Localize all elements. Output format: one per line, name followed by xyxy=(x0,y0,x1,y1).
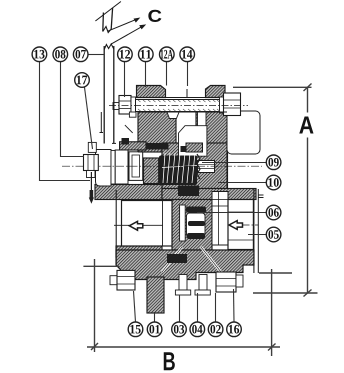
bottom flange band upper xyxy=(116,250,254,280)
label A xyxy=(299,116,313,133)
body flange band right xyxy=(162,189,256,200)
leader 15 xyxy=(134,291,136,322)
bonnet cap left block xyxy=(137,86,166,98)
leader 05 xyxy=(248,234,266,236)
stem bore lines xyxy=(100,112,117,143)
balloon 13 xyxy=(32,47,47,62)
leader 16 xyxy=(233,289,236,322)
leader 10 xyxy=(218,182,266,184)
balloon text 02 xyxy=(210,325,220,334)
leader 13 xyxy=(40,62,91,181)
plug slot white xyxy=(180,205,186,241)
balloons xyxy=(32,47,281,337)
balloon 12A xyxy=(160,47,175,62)
bottom studs xyxy=(110,270,243,295)
leader lines xyxy=(40,55,267,323)
balloon text 01 xyxy=(149,325,159,334)
leader 09 xyxy=(202,162,266,164)
balloon text 03 xyxy=(174,325,184,334)
balloon 09 xyxy=(266,155,281,170)
balloon 17 xyxy=(75,73,90,88)
spring jagged edges xyxy=(159,154,200,180)
flange lip dashes xyxy=(259,195,264,198)
bolt right hex nut xyxy=(224,93,241,116)
balloon text 12 xyxy=(120,50,130,59)
leader 17 xyxy=(85,87,93,149)
balloon text 17 xyxy=(77,76,87,85)
bonnet V-notch white xyxy=(167,111,180,119)
spring seat frame xyxy=(129,152,143,181)
dark filled parts xyxy=(122,138,207,263)
left port lower band xyxy=(116,246,162,257)
balloon text 05 xyxy=(268,230,278,239)
bonnet outline xyxy=(138,112,227,152)
balloon 07 xyxy=(73,47,88,62)
balloon 01 xyxy=(147,322,162,337)
bolt tip xyxy=(113,103,119,110)
plug dark top xyxy=(186,207,206,213)
flow arrow left xyxy=(129,221,143,230)
flow arrow right xyxy=(229,221,243,230)
adjusting nut in pocket xyxy=(186,143,203,152)
balloon text 10 xyxy=(268,178,278,187)
balloon 03 xyxy=(172,322,187,337)
body flange band left xyxy=(95,185,162,200)
right body edge lines xyxy=(253,188,255,273)
spring texture xyxy=(162,153,197,183)
label B xyxy=(164,352,175,370)
leader 08 xyxy=(61,62,85,157)
leader 03 xyxy=(179,295,181,322)
leader 11 xyxy=(145,62,147,87)
lower dark band xyxy=(167,254,187,263)
balloon text 08 xyxy=(55,50,65,59)
left bolt tip xyxy=(110,276,117,285)
bonnet white pocket xyxy=(179,126,207,157)
leader 02 xyxy=(215,293,217,322)
hatched body group xyxy=(95,86,256,314)
cage lines xyxy=(212,192,228,246)
bolt washer right xyxy=(220,97,224,113)
bonnet left mass xyxy=(138,112,176,152)
stem flag break xyxy=(95,2,121,33)
balloon 15 xyxy=(128,322,143,337)
flange seam left xyxy=(162,247,182,272)
bonnet white channel xyxy=(198,112,207,132)
leader 04 xyxy=(197,293,199,322)
leader 12A xyxy=(166,62,168,86)
stem xyxy=(104,44,114,144)
left port face line xyxy=(115,190,117,265)
bonnet right mass xyxy=(196,112,228,189)
seat dark band xyxy=(178,186,199,197)
leader 06 xyxy=(197,212,266,214)
center mass around spring xyxy=(162,143,227,189)
A dimension xyxy=(233,84,318,297)
bolt shaft xyxy=(136,100,220,112)
pocket dark mark xyxy=(181,146,187,152)
bolt centerline xyxy=(109,105,248,107)
balloon text 11 xyxy=(141,50,151,59)
bolt left hex head xyxy=(119,96,131,115)
leader 12 xyxy=(124,62,126,97)
balloon text 15 xyxy=(130,325,140,334)
balloon 06 xyxy=(266,205,281,220)
balloon 02 xyxy=(208,322,223,337)
top bolt xyxy=(113,93,241,116)
stud T 1 xyxy=(179,275,187,291)
balloon 16 xyxy=(227,322,242,337)
right port bore lines xyxy=(228,211,253,213)
balloon text 09 xyxy=(268,158,278,167)
spring dark blob xyxy=(159,156,197,186)
bore step line xyxy=(162,201,164,247)
left port bore xyxy=(122,201,173,247)
central cage white xyxy=(212,192,228,246)
packing box band xyxy=(120,142,146,150)
balloon 14 xyxy=(180,47,195,62)
plug dark mid xyxy=(188,221,205,226)
bonnet cap right block xyxy=(206,86,226,98)
bolt thread ticks xyxy=(138,100,220,111)
plug column hatched xyxy=(172,200,212,251)
bolt washer left xyxy=(131,97,136,113)
packing box dark xyxy=(122,138,130,145)
packing dark band xyxy=(146,143,169,150)
leader 07 xyxy=(88,54,104,56)
balloon 12 xyxy=(118,47,133,62)
packing follower white xyxy=(96,150,112,187)
yoke slope xyxy=(125,125,133,133)
balloon text 12A xyxy=(161,50,173,59)
right port bore xyxy=(228,200,253,250)
balloon 04 xyxy=(190,322,205,337)
stud T 2 xyxy=(199,275,207,291)
follower lip xyxy=(111,151,115,185)
flange seam right xyxy=(201,247,221,272)
gap right of spring seat xyxy=(144,158,159,184)
plug dark low xyxy=(187,233,205,239)
gland spacer white xyxy=(115,150,128,184)
port centerline left xyxy=(114,224,163,226)
right washer xyxy=(236,275,243,287)
view arrows to C xyxy=(108,18,147,45)
balloon 05 xyxy=(266,227,281,242)
port centerline right xyxy=(228,224,258,226)
balloon 08 xyxy=(53,47,68,62)
balloon 10 xyxy=(266,175,281,190)
balloon text 07 xyxy=(76,50,86,59)
left bolt hex head xyxy=(117,270,135,290)
leader 14 xyxy=(187,62,189,86)
balloon text 04 xyxy=(192,325,202,334)
balloon text 13 xyxy=(34,50,44,59)
B dimension xyxy=(83,259,292,356)
white interior shapes xyxy=(96,111,261,250)
balloon text 14 xyxy=(182,50,192,59)
drain pin dark xyxy=(89,172,94,204)
left adjusting hex fitting xyxy=(84,142,99,177)
balloon text 06 xyxy=(268,208,278,217)
bottom stud hatched xyxy=(147,277,164,313)
right hex nut xyxy=(216,272,236,292)
adjusting screw white xyxy=(198,161,215,173)
balloon text 16 xyxy=(229,325,239,334)
plug disc white xyxy=(187,213,206,237)
balloon 11 xyxy=(139,47,154,62)
label C xyxy=(148,10,161,22)
cap center verticals xyxy=(158,89,212,98)
upper mech centerline xyxy=(62,165,262,167)
right blind flange rounded rect xyxy=(227,111,260,154)
leader 01 xyxy=(154,313,156,322)
